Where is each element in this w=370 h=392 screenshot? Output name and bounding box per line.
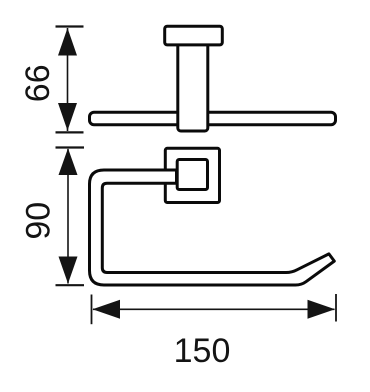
svg-text:150: 150 <box>174 332 231 370</box>
svg-text:66: 66 <box>19 64 57 102</box>
svg-text:90: 90 <box>19 202 57 240</box>
